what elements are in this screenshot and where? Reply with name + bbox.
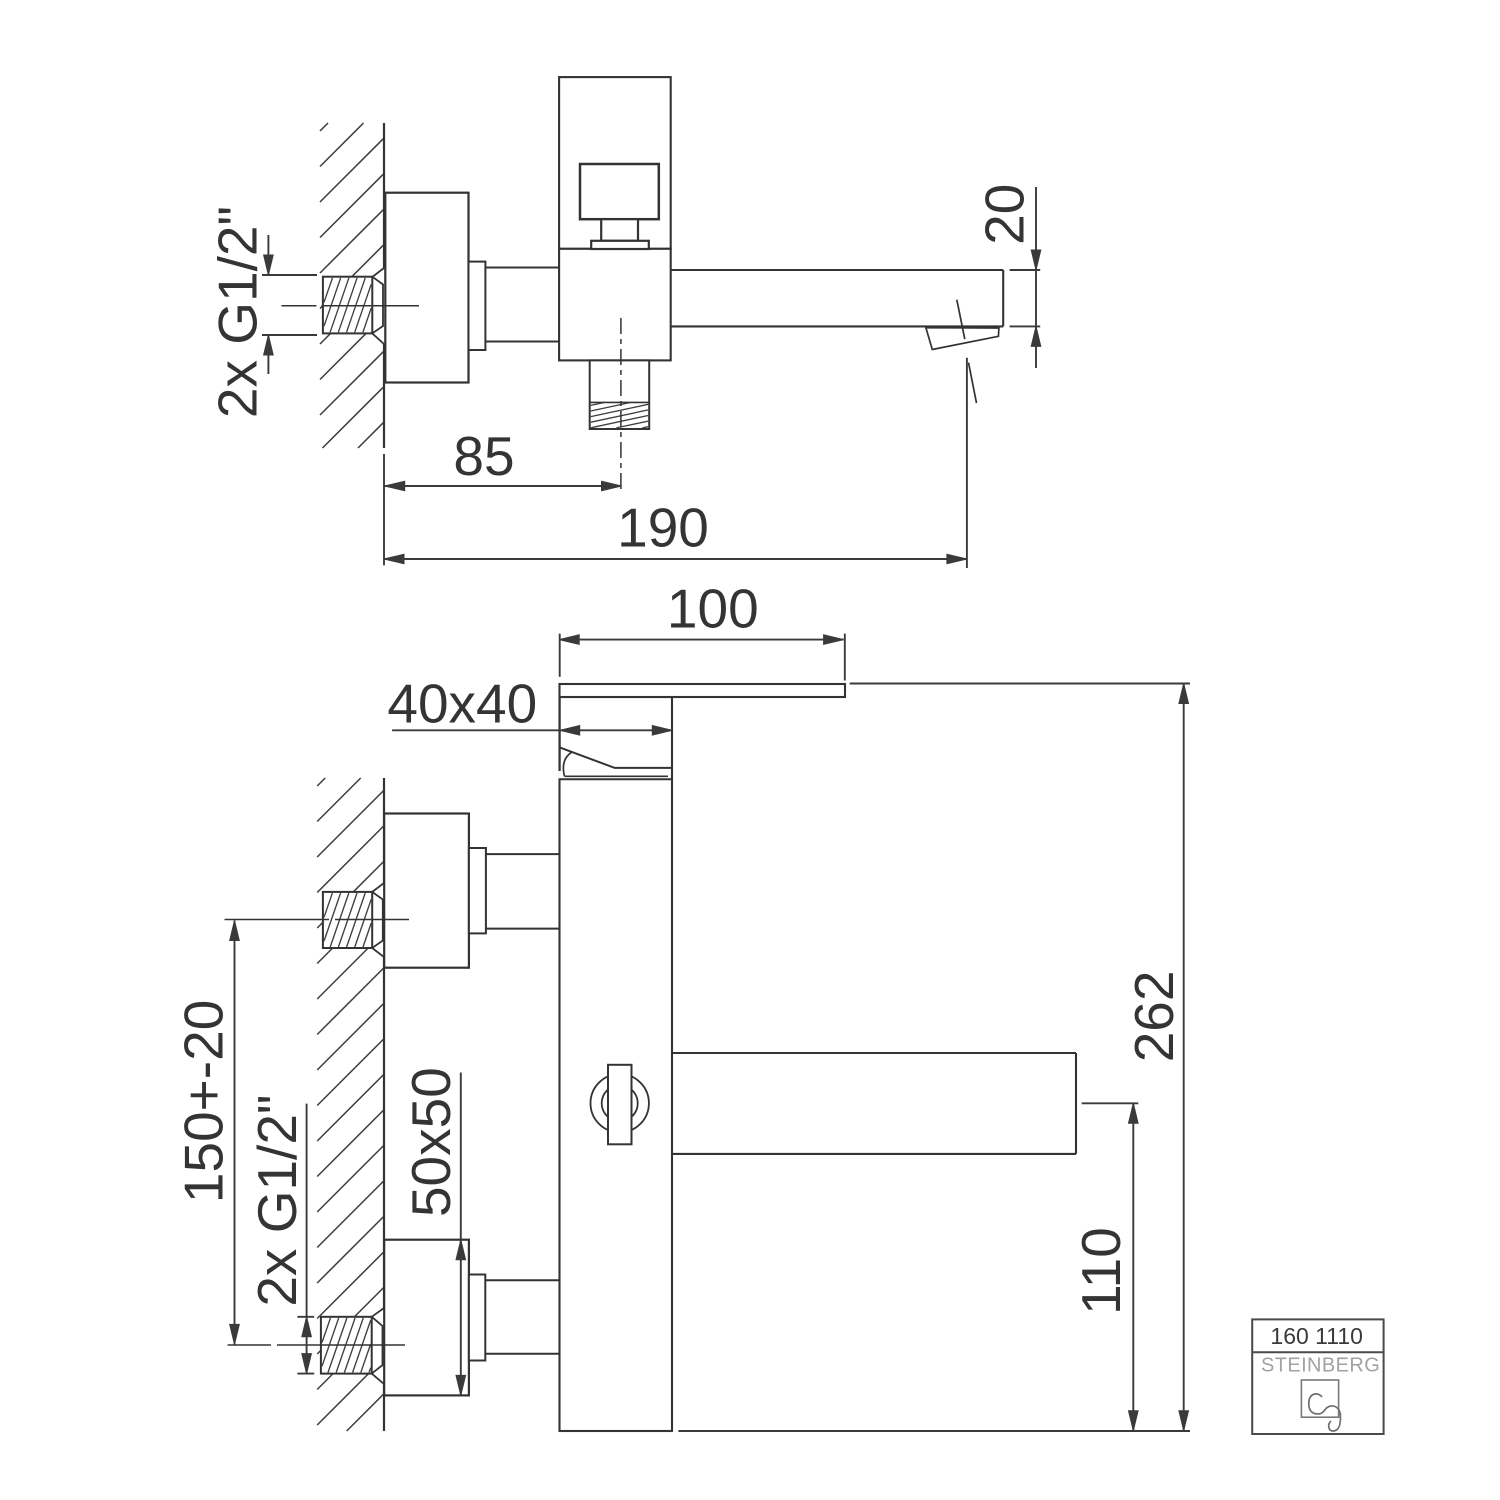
- side view lower inlet center line: [228, 1344, 271, 1346]
- side view faucet body: [560, 697, 673, 1431]
- svg-text:STEINBERG: STEINBERG: [1261, 1355, 1380, 1377]
- dimension 262: [850, 683, 1190, 685]
- top view handle stem: [601, 219, 638, 241]
- side view spout: [672, 1052, 1076, 1054]
- top view spout: [671, 269, 1004, 271]
- dimension 110: [1082, 1102, 1139, 1104]
- top view escutcheon adapter: [469, 262, 486, 350]
- top view hand-shower outlet: [590, 360, 650, 429]
- side view upper adapter: [469, 848, 486, 933]
- side view wall hatching: [317, 778, 384, 1431]
- dimension 190: [966, 358, 968, 568]
- side view upper G1/2 plug: [323, 892, 372, 948]
- side view lower supply pipe: [485, 1279, 559, 1281]
- side view handle screw cover: [608, 1065, 632, 1145]
- svg-text:40x40: 40x40: [387, 673, 537, 735]
- top view valve body: [559, 249, 671, 361]
- dimension 2x G1/2 (side view): [306, 1104, 308, 1374]
- side view upper supply pipe: [486, 853, 560, 855]
- svg-text:110: 110: [1070, 1227, 1132, 1315]
- dimension 150+-20: [234, 921, 236, 1345]
- side view lower adapter: [469, 1275, 485, 1361]
- side view upper countersink notch: [372, 883, 385, 957]
- top view aerator: [926, 328, 999, 350]
- logo box: [1252, 1319, 1383, 1434]
- svg-text:150+-20: 150+-20: [173, 1000, 235, 1203]
- dimension 40x40: [392, 729, 672, 731]
- dimension 50x50: [460, 1073, 462, 1396]
- dimension 2x G1/2 (top view): [267, 235, 269, 275]
- side view handle screw outer circle: [591, 1074, 649, 1132]
- svg-text:2x G1/2": 2x G1/2": [246, 1095, 308, 1307]
- side view handle lever: [558, 771, 560, 779]
- side view lower countersink notch: [371, 1308, 384, 1384]
- top view outlet center line: [620, 318, 622, 492]
- dimension 100: [559, 634, 561, 677]
- svg-text:85: 85: [453, 425, 514, 487]
- svg-text:50x50: 50x50: [400, 1067, 462, 1217]
- dimension 20 (spout height): [1035, 187, 1037, 368]
- top view wall countersink notch: [372, 268, 385, 344]
- top view wall escutcheon: [385, 193, 468, 383]
- top view handle base plate: [591, 241, 649, 249]
- top view upper housing: [559, 77, 671, 249]
- logo S-squiggle: [1309, 1394, 1341, 1431]
- side view wall surface line: [383, 778, 385, 883]
- svg-text:2x G1/2": 2x G1/2": [207, 206, 269, 418]
- side view upper escutcheon: [384, 814, 469, 968]
- top view wall surface line: [383, 123, 385, 268]
- svg-text:20: 20: [974, 184, 1036, 245]
- top view G1/2 threaded plug: [323, 277, 372, 334]
- logo box divider: [1252, 1351, 1383, 1353]
- side view top plate (waterfall spout): [560, 684, 846, 697]
- svg-text:262: 262: [1123, 971, 1185, 1063]
- dimension 85: [383, 454, 385, 565]
- svg-text:160 1110: 160 1110: [1270, 1323, 1363, 1349]
- top view wall hatching: [320, 123, 384, 448]
- side view lower G1/2 plug: [321, 1317, 372, 1374]
- top view inlet center line: [281, 305, 316, 307]
- top view supply pipe: [485, 267, 559, 269]
- svg-text:100: 100: [667, 578, 759, 640]
- svg-text:190: 190: [617, 497, 709, 559]
- logo square: [1301, 1380, 1338, 1417]
- side view lower escutcheon: [384, 1240, 469, 1396]
- top view outlet marker lines: [957, 300, 965, 340]
- side view upper inlet center line: [225, 919, 330, 921]
- side view handle screw inner circle: [602, 1085, 638, 1121]
- top view handle knob: [580, 164, 659, 219]
